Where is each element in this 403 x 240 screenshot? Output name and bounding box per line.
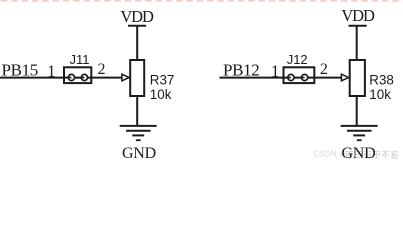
svg-text:2: 2 bbox=[98, 61, 106, 78]
wiper arrow of potentiometer R38 bbox=[341, 74, 348, 81]
dashed pink top border bbox=[1, 0, 403, 2]
jumper J11 body bbox=[64, 67, 91, 83]
svg-text:VDD: VDD bbox=[341, 6, 375, 25]
potentiometer R38 body bbox=[350, 60, 365, 96]
pin 1 pad circle of J11 bbox=[68, 74, 74, 80]
svg-text:J11: J11 bbox=[70, 52, 90, 67]
pin 2 pad circle of J11 bbox=[81, 74, 87, 80]
wire net PB15 to J11 and R37 wiper bbox=[0, 77, 123, 79]
svg-text:R37: R37 bbox=[150, 73, 175, 88]
svg-text:VDD: VDD bbox=[120, 7, 154, 26]
power symbol VDD bar bbox=[349, 25, 367, 27]
svg-text:2: 2 bbox=[320, 61, 328, 78]
potentiometer R37 body bbox=[130, 60, 144, 96]
wiper arrow of potentiometer R37 bbox=[122, 74, 129, 81]
ground symbol GND bars bbox=[341, 125, 378, 127]
jumper J12 body bbox=[284, 67, 315, 83]
wire R38 bottom to GND bbox=[356, 96, 358, 126]
pin 2 pad circle of J12 bbox=[302, 74, 308, 80]
svg-text:R38: R38 bbox=[369, 73, 394, 88]
wire VDD to R37 top bbox=[136, 26, 138, 60]
svg-text:10k: 10k bbox=[150, 87, 172, 102]
wire net PB12 to J12 and R38 wiper bbox=[220, 77, 343, 79]
svg-text:GND: GND bbox=[122, 145, 156, 162]
power symbol VDD bar bbox=[128, 25, 146, 27]
ground symbol GND bars bbox=[120, 125, 157, 127]
wire R37 bottom to GND bbox=[136, 96, 138, 126]
svg-text:10k: 10k bbox=[369, 87, 391, 102]
pin 1 pad circle of J12 bbox=[288, 74, 294, 80]
svg-text:J12: J12 bbox=[287, 52, 308, 67]
svg-text:1: 1 bbox=[271, 61, 279, 80]
svg-text:GND: GND bbox=[341, 145, 375, 162]
wire VDD to R38 top bbox=[356, 26, 358, 60]
svg-text:PB12: PB12 bbox=[223, 60, 259, 79]
watermark username glyphs bbox=[346, 151, 353, 158]
svg-text:PB15: PB15 bbox=[2, 60, 38, 79]
svg-text:1: 1 bbox=[47, 61, 55, 80]
